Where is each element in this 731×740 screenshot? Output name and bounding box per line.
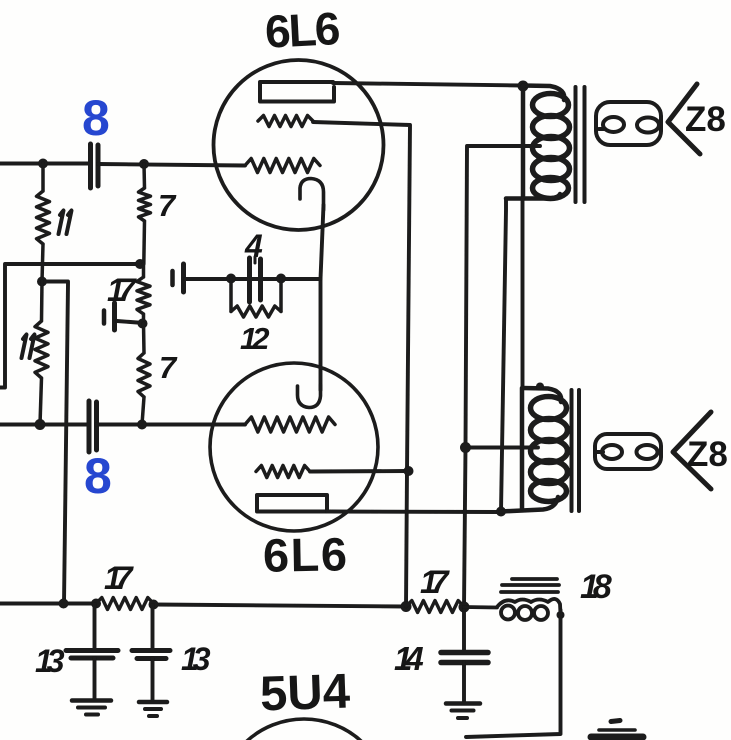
node dot D1	[226, 274, 236, 284]
wire plate V2 to T2 bottom	[327, 510, 501, 514]
choke L18 winding	[464, 599, 561, 620]
plate of V2	[257, 495, 327, 512]
resistor R17a	[137, 264, 150, 324]
resistor R11b	[35, 282, 48, 425]
svg-text:6L6: 6L6	[264, 2, 340, 58]
node dot F5	[459, 602, 470, 613]
screen grid zigzag V1	[258, 116, 313, 127]
bottom-right ground stub	[611, 721, 620, 722]
control grid zigzag V1	[245, 159, 320, 173]
svg-text:13: 13	[35, 643, 65, 679]
wire plate V1 to T1 top	[333, 83, 523, 86]
node dot C3	[137, 420, 147, 430]
T2 core laminations	[572, 390, 580, 511]
wire input bus y163 left segment	[0, 162, 90, 166]
node dot F3	[149, 600, 159, 610]
resistor R12	[231, 279, 281, 318]
svg-text:17: 17	[104, 560, 135, 596]
choke L18 core	[501, 579, 559, 592]
node dot E1 screen junction	[404, 466, 414, 476]
capacitor C13b	[151, 605, 155, 648]
transformer T2 primary coil	[501, 388, 568, 512]
resistor R11a	[37, 164, 50, 282]
svg-text:7: 7	[158, 188, 177, 223]
svg-text:Z8: Z8	[685, 100, 726, 139]
wire lower input bus y424 left segment	[0, 423, 89, 427]
resistor R17d	[406, 601, 464, 613]
node dot D2	[276, 274, 286, 284]
label 11 a	[59, 211, 72, 235]
svg-text:6L6: 6L6	[263, 527, 349, 581]
node dot F1	[59, 599, 69, 609]
node dot B2	[138, 319, 148, 329]
ground cap tap (bypass to chassis) of R17a node	[102, 311, 107, 324]
op tube V2 envelope	[210, 363, 378, 531]
ground for C13b	[139, 700, 167, 705]
svg-text:12: 12	[240, 321, 269, 356]
wire screen V2 to screen bus	[310, 469, 409, 473]
capacitor C13a	[93, 604, 97, 648]
choke L18 end blob	[557, 611, 565, 619]
transformer T1 primary coil	[506, 86, 570, 199]
op tube V1 envelope	[214, 60, 384, 230]
wire cathode network y279	[185, 277, 321, 281]
control grid zigzag V2	[245, 417, 335, 432]
ground for C13a	[72, 698, 111, 703]
node dot C2	[35, 419, 46, 430]
wire input bus y163 right segment to grid V1	[98, 164, 245, 166]
chevron J1	[668, 84, 700, 154]
svg-text:17: 17	[420, 564, 451, 600]
plate of V1	[260, 82, 334, 102]
svg-text:14: 14	[394, 640, 423, 677]
node dot T1 top	[518, 81, 529, 92]
wire T1 center tap	[464, 146, 540, 607]
speaker jack J2	[595, 434, 661, 469]
ground for C14	[446, 701, 480, 706]
T1 core laminations	[576, 87, 585, 202]
wire screen V1 right then down to bottom bus	[313, 122, 410, 607]
svg-text:18: 18	[580, 568, 612, 606]
label 11 b	[22, 335, 35, 359]
svg-text:13: 13	[181, 641, 211, 677]
resistor R17c	[96, 598, 154, 610]
svg-text:7: 7	[159, 350, 178, 385]
wire feedback y264 with left corner	[0, 264, 140, 388]
svg-text:5U4: 5U4	[259, 664, 351, 721]
wire link T1 bottom to T2 top	[521, 199, 525, 389]
speaker jack J1	[596, 102, 661, 145]
capacitor C4 plates	[250, 258, 261, 302]
wire choke down and left to rectifier	[466, 610, 561, 737]
small blob T2 top	[536, 383, 544, 391]
node dot F4	[401, 601, 412, 612]
node dot B1	[135, 259, 145, 269]
bottom supply bus	[0, 604, 406, 607]
resistor R7a	[139, 164, 151, 264]
capacitor C8b plates	[89, 401, 97, 452]
wire T2 center tap	[466, 446, 539, 450]
node dot B+ tap	[460, 442, 471, 453]
cathode hook V1	[300, 179, 324, 211]
node dot T1 bottom junction	[496, 507, 506, 517]
wire T1 bottom down to V2 plate line	[501, 199, 506, 512]
rectifier tube V3 envelope arc	[219, 719, 389, 740]
capacitor C14	[462, 607, 466, 650]
wire from R11 junction right then down to bottom bus	[42, 282, 68, 604]
chevron J2	[673, 412, 711, 489]
node dot A1	[38, 159, 48, 169]
node dot F2	[91, 599, 101, 609]
capacitor C8a plates	[91, 144, 99, 188]
resistor R7b	[138, 324, 150, 425]
wire lower input bus y424 right segment to grid V2	[97, 423, 246, 427]
wire cathode V1 down to cathode V2	[321, 205, 324, 390]
ground symbol for cathode network	[170, 271, 175, 285]
node dot C1	[37, 277, 47, 287]
svg-text:8: 8	[84, 448, 112, 504]
screen grid zigzag V2	[256, 466, 310, 478]
cathode hook V2	[298, 385, 321, 408]
svg-text:Z8: Z8	[687, 435, 728, 474]
node dot A2	[139, 159, 149, 169]
svg-text:8: 8	[82, 90, 110, 146]
svg-text:17: 17	[107, 272, 138, 308]
